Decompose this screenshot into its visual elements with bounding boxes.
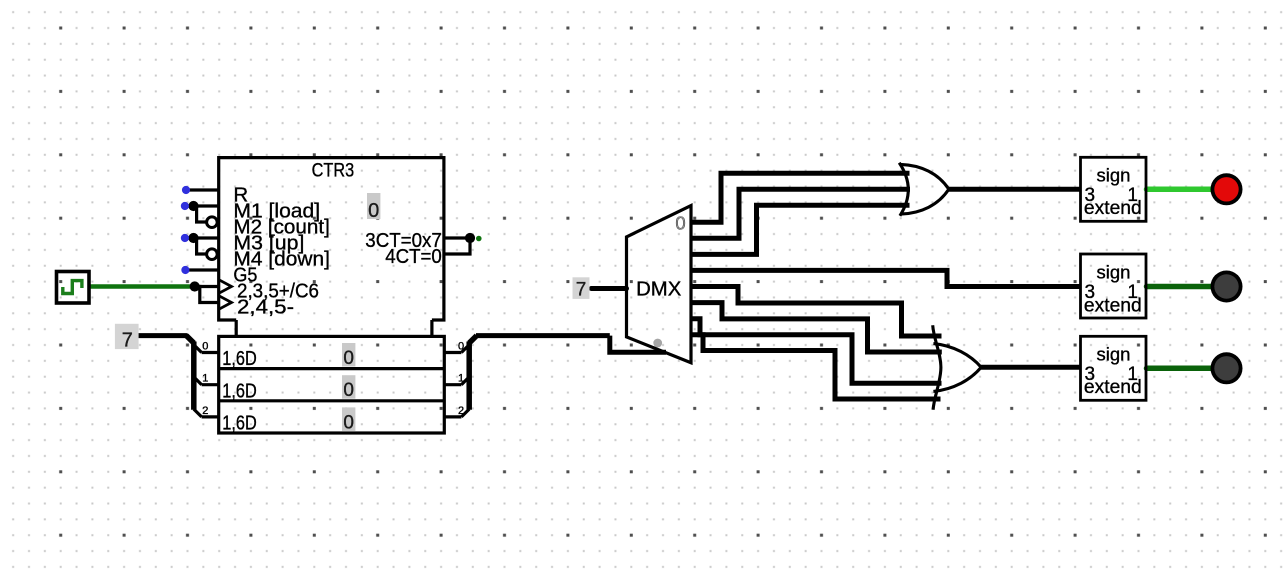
svg-text:0: 0 (368, 200, 379, 222)
svg-text:2: 2 (458, 405, 464, 417)
svg-text:DMX: DMX (636, 278, 681, 300)
svg-text:0: 0 (343, 348, 354, 369)
svg-text:sign: sign (1097, 262, 1131, 283)
svg-text:7: 7 (576, 280, 587, 301)
svg-text:CTR3: CTR3 (312, 160, 355, 182)
svg-text:4CT=0: 4CT=0 (385, 245, 442, 268)
svg-text:1,6D: 1,6D (222, 379, 256, 402)
svg-text:0: 0 (458, 341, 464, 353)
svg-text:1: 1 (202, 373, 208, 385)
svg-text:sign: sign (1097, 343, 1131, 364)
svg-text:2,4,5-: 2,4,5- (237, 296, 294, 319)
svg-text:2: 2 (202, 405, 208, 417)
svg-text:7: 7 (122, 329, 133, 351)
svg-text:0: 0 (343, 380, 354, 401)
svg-text:1,6D: 1,6D (222, 347, 256, 370)
svg-text:0: 0 (675, 212, 685, 233)
svg-text:1: 1 (458, 373, 464, 385)
svg-text:extend: extend (1084, 377, 1142, 398)
svg-text:1,6D: 1,6D (222, 412, 256, 435)
svg-text:sign: sign (1097, 164, 1131, 185)
svg-text:extend: extend (1084, 295, 1142, 316)
svg-text:0: 0 (343, 412, 354, 433)
svg-text:extend: extend (1084, 198, 1142, 219)
svg-text:0: 0 (202, 341, 208, 353)
